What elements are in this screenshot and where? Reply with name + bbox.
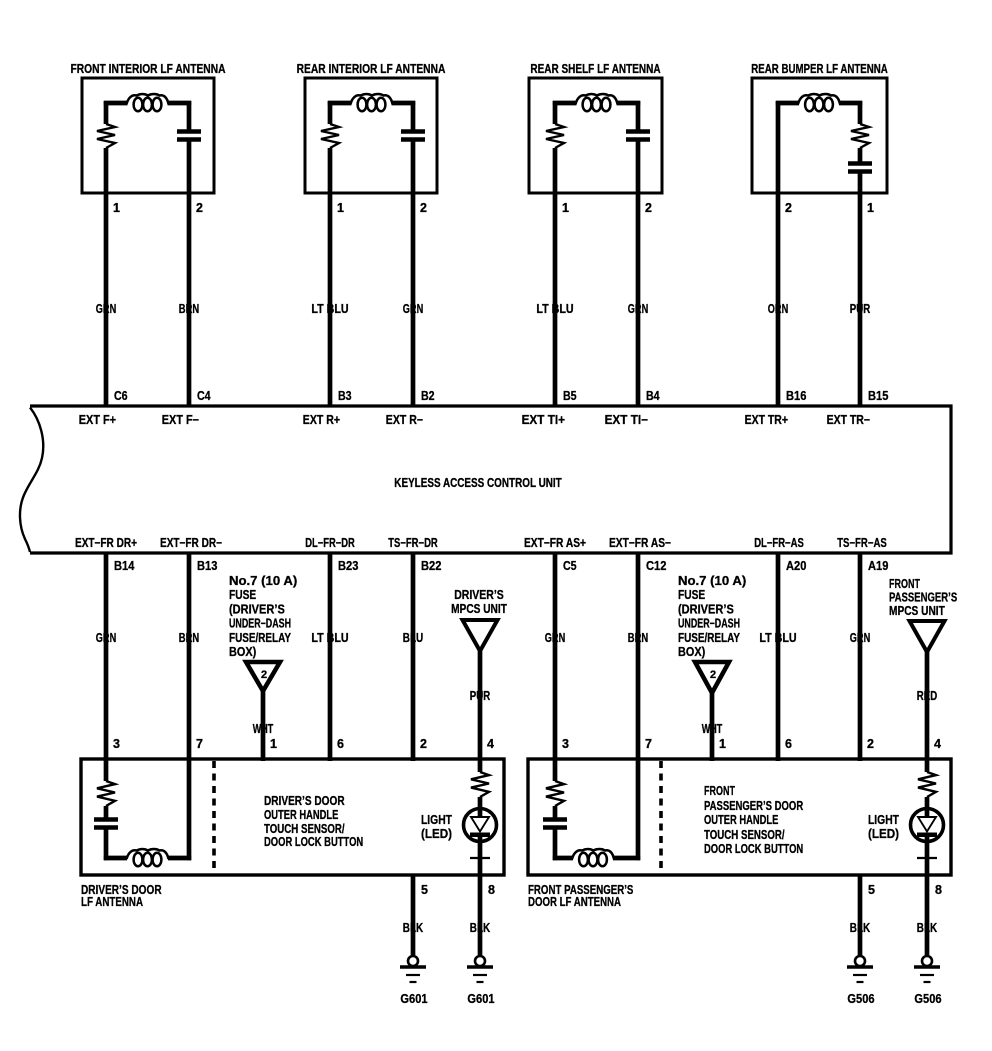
connector pin B4 bbox=[646, 389, 660, 403]
terminal label EXT−FR DR+ bbox=[75, 536, 137, 550]
svg-text:EXT TI−: EXT TI− bbox=[605, 413, 648, 427]
svg-text:EXT F−: EXT F− bbox=[162, 413, 199, 427]
inductor, front passenger's door LF antenna bbox=[572, 849, 614, 866]
wire: C12/BRN bbox=[636, 553, 641, 761]
svg-text:G601: G601 bbox=[467, 992, 494, 1006]
wire: pin 1 upper segment, rear interior LF antenna bbox=[328, 101, 333, 124]
ground label G601 bbox=[467, 992, 494, 1006]
wire colour label GRN bbox=[850, 631, 870, 645]
svg-text:ORN: ORN bbox=[768, 302, 788, 316]
svg-text:G601: G601 bbox=[400, 992, 427, 1006]
ground symbol G506 bbox=[914, 956, 940, 982]
label: REAR BUMPER LF ANTENNA bbox=[751, 62, 887, 76]
svg-text:FUSE: FUSE bbox=[678, 588, 705, 602]
ground symbol G601 bbox=[400, 956, 426, 982]
wire: pin 5 BLK to ground, driver side bbox=[411, 875, 416, 956]
wire: pin 2 upper segment, rear interior LF antenna bbox=[411, 101, 416, 131]
wire: bottom rail left, driver's door antenna bbox=[104, 856, 127, 861]
svg-text:B2: B2 bbox=[421, 389, 435, 403]
svg-text:WHT: WHT bbox=[253, 722, 274, 736]
pin number 5, driver side bbox=[421, 883, 428, 897]
wire: pin 8 BLK to ground, passenger side bbox=[925, 875, 930, 956]
svg-text:REAR BUMPER LF ANTENNA: REAR BUMPER LF ANTENNA bbox=[751, 62, 887, 76]
wire: resistor to capacitor, rear bumper LF antenna bbox=[858, 148, 863, 163]
resistor, front passenger's door LF antenna bbox=[546, 781, 564, 806]
wire colour label LT BLU bbox=[759, 631, 796, 645]
wire: top rail right, front interior LF antenna bbox=[168, 101, 192, 106]
antenna unit box: rear shelf LF antenna bbox=[529, 78, 662, 193]
wire: LED cathode to box bottom, driver bbox=[478, 834, 483, 875]
wire colour label GRN bbox=[96, 631, 116, 645]
capacitor, rear shelf LF antenna bbox=[626, 132, 650, 140]
connector pin C4 bbox=[197, 389, 211, 403]
terminal label EXT R− bbox=[386, 413, 423, 427]
svg-text:5: 5 bbox=[868, 883, 875, 897]
wire: pin 2 lead to control unit, front interior LF antenna bbox=[187, 141, 192, 406]
svg-text:B16: B16 bbox=[786, 389, 806, 403]
svg-text:B3: B3 bbox=[338, 389, 352, 403]
terminal label EXT TR+ bbox=[745, 413, 788, 427]
svg-text:GRN: GRN bbox=[850, 631, 870, 645]
wire: pin 2 lead to control unit, rear interior LF antenna bbox=[411, 141, 416, 406]
svg-text:6: 6 bbox=[785, 737, 792, 751]
svg-text:UNDER−DASH: UNDER−DASH bbox=[678, 617, 740, 631]
svg-text:FUSE: FUSE bbox=[229, 588, 256, 602]
svg-text:EXT−FR AS−: EXT−FR AS− bbox=[609, 536, 671, 550]
pin number 5, passenger side bbox=[868, 883, 875, 897]
svg-text:TS−FR−DR: TS−FR−DR bbox=[388, 536, 438, 550]
svg-text:5: 5 bbox=[421, 883, 428, 897]
pin number 2, rear shelf LF antenna bbox=[645, 201, 652, 215]
wire: top rail right, rear shelf LF antenna bbox=[617, 101, 641, 106]
svg-text:PASSENGER’S: PASSENGER’S bbox=[889, 591, 957, 605]
wire: MPCS unit to driver door unit pin 4 (PUR) bbox=[478, 651, 483, 761]
wire: B23/LT BLU bbox=[328, 553, 333, 761]
pin number 7 bbox=[645, 737, 652, 751]
svg-text:PUR: PUR bbox=[470, 689, 490, 703]
svg-text:C12: C12 bbox=[646, 559, 666, 573]
capacitor, driver's door LF antenna bbox=[94, 820, 118, 828]
svg-text:EXT−FR AS+: EXT−FR AS+ bbox=[524, 536, 586, 550]
box: front passenger's door unit outer handle touch sensor/door lock button bbox=[528, 759, 951, 875]
svg-text:DOOR LOCK BUTTON: DOOR LOCK BUTTON bbox=[704, 842, 803, 856]
wire: resistor to capacitor, passenger door antenna bbox=[553, 806, 558, 819]
wire: pin 2 upper segment, rear shelf LF antenna bbox=[636, 101, 641, 131]
wire colour label PUR bbox=[850, 302, 870, 316]
svg-text:C6: C6 bbox=[114, 389, 128, 403]
svg-text:DRIVER’S DOOR: DRIVER’S DOOR bbox=[264, 794, 345, 808]
label: DRIVER'S DOOR OUTER HANDLE TOUCH SENSOR/DOOR LOCK BUTTON bbox=[264, 794, 363, 849]
antenna unit box: front interior LF antenna bbox=[82, 78, 214, 193]
inductor, rear shelf LF antenna bbox=[576, 94, 618, 111]
wire colour label BRN bbox=[179, 302, 199, 316]
box: driver's door unit outer handle touch sensor/door lock button bbox=[81, 759, 504, 875]
svg-text:TS−FR−AS: TS−FR−AS bbox=[837, 536, 887, 550]
svg-text:EXT R+: EXT R+ bbox=[303, 413, 340, 427]
svg-text:OUTER HANDLE: OUTER HANDLE bbox=[264, 808, 338, 822]
wire: resistor to LED, passenger bbox=[925, 797, 930, 817]
tick mark on LED cathode wire, driver bbox=[470, 857, 490, 859]
svg-text:EXT TR−: EXT TR− bbox=[827, 413, 870, 427]
svg-text:1: 1 bbox=[270, 737, 277, 751]
connector pin B14 bbox=[114, 559, 134, 573]
wire: pin 4 to resistor, passenger LED bbox=[925, 761, 930, 772]
capacitor, rear interior LF antenna bbox=[401, 132, 425, 140]
svg-text:FUSE/RELAY: FUSE/RELAY bbox=[678, 631, 741, 645]
pin number 8, driver side bbox=[488, 883, 495, 897]
svg-text:2: 2 bbox=[645, 201, 652, 215]
svg-text:EXT F+: EXT F+ bbox=[79, 413, 116, 427]
wire: top rail left, rear interior LF antenna bbox=[328, 101, 352, 106]
label: LIGHT (LED), driver bbox=[421, 813, 452, 841]
wire: top rail right, rear bumper LF antenna bbox=[839, 101, 862, 106]
connector pin C5 bbox=[563, 559, 577, 573]
pin number 1, rear bumper LF antenna bbox=[867, 201, 874, 215]
svg-text:7: 7 bbox=[645, 737, 652, 751]
connector pin B2 bbox=[421, 389, 435, 403]
dashed divider, front passenger's door unit bbox=[659, 761, 663, 873]
svg-text:EXT−FR DR+: EXT−FR DR+ bbox=[75, 536, 137, 550]
wire: driver's door antenna pin 3 segment bbox=[104, 761, 109, 781]
svg-text:LT BLU: LT BLU bbox=[311, 302, 348, 316]
wire colour label BRN bbox=[628, 631, 648, 645]
svg-text:No.7 (10 A): No.7 (10 A) bbox=[678, 574, 746, 588]
svg-text:LIGHT: LIGHT bbox=[421, 813, 452, 827]
resistor, passenger LED branch bbox=[918, 772, 936, 797]
svg-text:B23: B23 bbox=[338, 559, 358, 573]
resistor, driver's door LF antenna bbox=[97, 781, 115, 806]
connector pin C6 bbox=[114, 389, 128, 403]
capacitor, front interior LF antenna bbox=[177, 132, 201, 140]
svg-text:PUR: PUR bbox=[850, 302, 870, 316]
svg-text:GRN: GRN bbox=[628, 302, 648, 316]
svg-text:4: 4 bbox=[487, 737, 494, 751]
svg-text:LF ANTENNA: LF ANTENNA bbox=[81, 895, 143, 909]
wire: A19/GRN bbox=[858, 553, 863, 761]
label: DRIVER'S MPCS UNIT bbox=[451, 588, 507, 616]
svg-text:B4: B4 bbox=[646, 389, 660, 403]
wire: capacitor down, passenger door antenna bbox=[553, 829, 558, 860]
svg-text:GRN: GRN bbox=[96, 302, 116, 316]
wire: bottom rail right, driver's door antenna bbox=[168, 856, 191, 861]
wire: B22/BLU bbox=[411, 553, 416, 761]
svg-text:FRONT INTERIOR LF ANTENNA: FRONT INTERIOR LF ANTENNA bbox=[71, 62, 226, 76]
wire: bottom rail left, passenger door antenna bbox=[553, 856, 573, 861]
svg-text:DRIVER’S: DRIVER’S bbox=[454, 588, 504, 602]
resistor, rear interior LF antenna bbox=[321, 124, 339, 148]
wire: passenger door antenna pin 3 segment bbox=[553, 761, 558, 781]
svg-text:(DRIVER’S: (DRIVER’S bbox=[678, 602, 734, 616]
wire: C5/GRN bbox=[553, 553, 558, 761]
connector pin C12 bbox=[646, 559, 666, 573]
antenna unit box: rear interior LF antenna bbox=[305, 78, 437, 193]
svg-text:MPCS UNIT: MPCS UNIT bbox=[889, 604, 945, 618]
svg-text:DL−FR−DR: DL−FR−DR bbox=[305, 536, 355, 550]
svg-text:1: 1 bbox=[867, 201, 874, 215]
resistor, rear bumper LF antenna bbox=[851, 124, 869, 148]
resistor, rear shelf LF antenna bbox=[546, 124, 564, 148]
svg-text:LT BLU: LT BLU bbox=[759, 631, 796, 645]
svg-text:6: 6 bbox=[337, 737, 344, 751]
terminal label EXT F− bbox=[162, 413, 199, 427]
wire: B13/BRN bbox=[187, 553, 192, 761]
label: REAR SHELF LF ANTENNA bbox=[530, 62, 660, 76]
wire colour label ORN bbox=[768, 302, 788, 316]
terminal label TS−FR−DR bbox=[388, 536, 438, 550]
svg-text:A20: A20 bbox=[786, 559, 806, 573]
svg-text:TOUCH SENSOR/: TOUCH SENSOR/ bbox=[264, 822, 345, 836]
svg-text:BOX): BOX) bbox=[229, 645, 256, 659]
label: No.7 (10 A) fuse callout (left) bbox=[229, 574, 297, 659]
wire colour label GRN bbox=[96, 302, 116, 316]
svg-text:BLK: BLK bbox=[917, 921, 937, 935]
front passenger's MPCS unit symbol bbox=[910, 621, 945, 652]
fuse No.7 symbol (driver side) bbox=[246, 662, 280, 691]
svg-text:7: 7 bbox=[196, 737, 203, 751]
svg-text:B13: B13 bbox=[197, 559, 217, 573]
svg-text:TOUCH SENSOR/: TOUCH SENSOR/ bbox=[704, 828, 785, 842]
svg-text:WHT: WHT bbox=[702, 722, 723, 736]
wire: top rail right, rear interior LF antenna bbox=[392, 101, 416, 106]
inductor, driver's door LF antenna bbox=[127, 849, 169, 866]
connector pin B3 bbox=[338, 389, 352, 403]
wire colour label BLK bbox=[470, 921, 490, 935]
svg-text:FUSE/RELAY: FUSE/RELAY bbox=[229, 631, 292, 645]
svg-text:2: 2 bbox=[785, 201, 792, 215]
connector pin A19 bbox=[868, 559, 888, 573]
svg-text:8: 8 bbox=[935, 883, 942, 897]
svg-text:G506: G506 bbox=[847, 992, 874, 1006]
driver's MPCS unit symbol bbox=[463, 620, 498, 651]
svg-text:GRN: GRN bbox=[545, 631, 565, 645]
wire: resistor to LED, driver bbox=[478, 797, 483, 817]
label: DRIVER'S DOOR LF ANTENNA bbox=[81, 883, 162, 909]
wire colour label WHT bbox=[253, 722, 274, 736]
svg-text:EXT TR+: EXT TR+ bbox=[745, 413, 788, 427]
pin number 2, rear bumper LF antenna bbox=[785, 201, 792, 215]
terminal label DL−FR−DR bbox=[305, 536, 355, 550]
pin number 6 bbox=[785, 737, 792, 751]
svg-text:1: 1 bbox=[113, 201, 120, 215]
label: LIGHT (LED), passenger bbox=[868, 813, 899, 841]
wire colour label GRN bbox=[403, 302, 423, 316]
terminal label EXT−FR AS+ bbox=[524, 536, 586, 550]
svg-text:DOOR LOCK BUTTON: DOOR LOCK BUTTON bbox=[264, 835, 363, 849]
wire colour label LT BLU bbox=[536, 302, 573, 316]
svg-text:GRN: GRN bbox=[96, 631, 116, 645]
svg-text:EXT R−: EXT R− bbox=[386, 413, 423, 427]
wire: pin 1 lead to control unit, rear bumper LF antenna bbox=[858, 173, 863, 406]
svg-text:MPCS UNIT: MPCS UNIT bbox=[451, 602, 507, 616]
svg-text:BLK: BLK bbox=[403, 921, 423, 935]
svg-text:1: 1 bbox=[719, 737, 726, 751]
wire colour label LT BLU bbox=[311, 302, 348, 316]
terminal label EXT TI− bbox=[605, 413, 648, 427]
tick mark on LED cathode wire, passenger bbox=[917, 857, 937, 859]
wire: passenger door antenna pin 7 segment bbox=[636, 761, 641, 860]
ground label G601 bbox=[400, 992, 427, 1006]
pin number 8, passenger side bbox=[935, 883, 942, 897]
wire: pin 1 upper segment, front interior LF antenna bbox=[104, 101, 109, 124]
svg-text:8: 8 bbox=[488, 883, 495, 897]
connector pin B22 bbox=[421, 559, 441, 573]
svg-text:2: 2 bbox=[867, 737, 874, 751]
pin number 4 bbox=[934, 737, 941, 751]
svg-text:No.7 (10 A): No.7 (10 A) bbox=[229, 574, 297, 588]
wire colour label BLK bbox=[403, 921, 423, 935]
pin number 2, rear interior LF antenna bbox=[420, 201, 427, 215]
wire: pin 2 lead to control unit, rear bumper LF antenna bbox=[776, 101, 781, 406]
svg-text:B15: B15 bbox=[868, 389, 888, 403]
svg-text:2: 2 bbox=[261, 669, 267, 681]
inductor, rear bumper LF antenna bbox=[798, 94, 840, 111]
label: FRONT PASSENGER'S MPCS UNIT bbox=[889, 577, 957, 618]
svg-text:4: 4 bbox=[934, 737, 941, 751]
pin number 3 bbox=[562, 737, 569, 751]
svg-text:EXT TI+: EXT TI+ bbox=[522, 413, 565, 427]
wire: MPCS unit to passenger door unit pin 4 (RED) bbox=[925, 652, 930, 761]
svg-text:EXT−FR DR−: EXT−FR DR− bbox=[160, 536, 222, 550]
connector pin B13 bbox=[197, 559, 217, 573]
wire: fuse to driver door unit pin 1 (WHT) bbox=[261, 691, 266, 761]
inductor, front interior LF antenna bbox=[127, 94, 169, 111]
wire: pin 5 BLK to ground, passenger side bbox=[858, 875, 863, 956]
wire: fuse to passenger door unit pin 1 (WHT) bbox=[710, 693, 715, 761]
pin number 1, front interior LF antenna bbox=[113, 201, 120, 215]
connector pin A20 bbox=[786, 559, 806, 573]
resistor, front interior LF antenna bbox=[97, 124, 115, 148]
svg-text:3: 3 bbox=[113, 737, 120, 751]
wire: bottom rail right, passenger door antenna bbox=[613, 856, 640, 861]
wire: pin 1 lead to control unit, rear shelf LF antenna bbox=[553, 148, 558, 406]
wire colour label RED bbox=[917, 689, 937, 703]
connector pin B16 bbox=[786, 389, 806, 403]
terminal label EXT TR− bbox=[827, 413, 870, 427]
wire: pin 1 upper segment, rear shelf LF antenna bbox=[553, 101, 558, 124]
inductor, rear interior LF antenna bbox=[351, 94, 393, 111]
svg-text:GRN: GRN bbox=[403, 302, 423, 316]
svg-text:C4: C4 bbox=[197, 389, 211, 403]
svg-text:3: 3 bbox=[562, 737, 569, 751]
wire: top rail left, rear bumper LF antenna bbox=[776, 101, 799, 106]
wire colour label GRN bbox=[628, 302, 648, 316]
wire: top rail left, front interior LF antenna bbox=[104, 101, 128, 106]
wire: pin 1 upper segment, rear bumper LF antenna bbox=[858, 101, 863, 124]
svg-text:2: 2 bbox=[196, 201, 203, 215]
wire: capacitor down, driver's door antenna bbox=[104, 829, 109, 860]
wire colour label GRN bbox=[545, 631, 565, 645]
wire colour label BLK bbox=[917, 921, 937, 935]
svg-text:LT BLU: LT BLU bbox=[536, 302, 573, 316]
wire colour label PUR bbox=[470, 689, 490, 703]
wire: driver's door antenna pin 7 segment bbox=[187, 761, 192, 860]
svg-text:LIGHT: LIGHT bbox=[868, 813, 899, 827]
svg-text:FRONT: FRONT bbox=[889, 577, 920, 591]
svg-text:B14: B14 bbox=[114, 559, 134, 573]
svg-text:(DRIVER’S: (DRIVER’S bbox=[229, 602, 285, 616]
connector pin B5 bbox=[563, 389, 577, 403]
label: No.7 (10 A) fuse callout (right) bbox=[678, 574, 746, 659]
ground label G506 bbox=[914, 992, 941, 1006]
svg-text:C5: C5 bbox=[563, 559, 577, 573]
svg-text:BRN: BRN bbox=[179, 631, 199, 645]
wire colour label LT BLU bbox=[311, 631, 348, 645]
antenna unit box: rear bumper LF antenna bbox=[752, 78, 887, 193]
terminal label TS−FR−AS bbox=[837, 536, 887, 550]
wire: pin 2 lead to control unit, rear shelf LF antenna bbox=[636, 141, 641, 406]
svg-text:1: 1 bbox=[562, 201, 569, 215]
pin number 1 bbox=[719, 737, 726, 751]
wire colour label WHT bbox=[702, 722, 723, 736]
svg-text:A19: A19 bbox=[868, 559, 888, 573]
ground symbol G601 bbox=[467, 956, 493, 982]
wire: pin 8 BLK to ground, driver side bbox=[478, 875, 483, 956]
capacitor, front passenger's door LF antenna bbox=[543, 820, 567, 828]
svg-text:2: 2 bbox=[420, 201, 427, 215]
resistor, driver LED branch bbox=[471, 772, 489, 797]
svg-text:DOOR LF ANTENNA: DOOR LF ANTENNA bbox=[528, 895, 621, 909]
svg-text:1: 1 bbox=[337, 201, 344, 215]
wire colour label BRN bbox=[179, 631, 199, 645]
svg-text:RED: RED bbox=[917, 689, 937, 703]
terminal label EXT R+ bbox=[303, 413, 340, 427]
svg-text:PASSENGER’S DOOR: PASSENGER’S DOOR bbox=[704, 799, 803, 813]
connector pin B23 bbox=[338, 559, 358, 573]
svg-text:BLK: BLK bbox=[470, 921, 490, 935]
pin number 2 bbox=[867, 737, 874, 751]
wire: pin 4 to resistor, driver LED bbox=[478, 761, 483, 772]
pin number 2, front interior LF antenna bbox=[196, 201, 203, 215]
svg-text:DL−FR−AS: DL−FR−AS bbox=[754, 536, 804, 550]
label: FRONT PASSENGER'S DOOR OUTER HANDLE TOUCH SENSOR/DOOR LOCK BUTTON bbox=[704, 784, 803, 856]
svg-text:OUTER HANDLE: OUTER HANDLE bbox=[704, 813, 778, 827]
pin number 1, rear shelf LF antenna bbox=[562, 201, 569, 215]
wire: B14/GRN bbox=[104, 553, 109, 761]
capacitor, rear bumper LF antenna bbox=[848, 164, 872, 172]
fuse No.7 symbol (passenger side) bbox=[695, 662, 729, 693]
wire: pin 1 lead to control unit, rear interior LF antenna bbox=[328, 148, 333, 406]
wire: A20/LT BLU bbox=[776, 553, 781, 761]
LED, driver door light bbox=[464, 809, 497, 842]
svg-text:BOX): BOX) bbox=[678, 645, 705, 659]
dashed divider, driver's door unit bbox=[212, 761, 216, 873]
label: KEYLESS ACCESS CONTROL UNIT bbox=[394, 476, 562, 490]
pin number 7 bbox=[196, 737, 203, 751]
svg-text:(LED): (LED) bbox=[421, 827, 452, 841]
pin number 3 bbox=[113, 737, 120, 751]
svg-text:UNDER−DASH: UNDER−DASH bbox=[229, 617, 291, 631]
connector pin B15 bbox=[868, 389, 888, 403]
wire: pin 1 lead to control unit, front interior LF antenna bbox=[104, 148, 109, 406]
wire colour label BLU bbox=[403, 631, 423, 645]
terminal label EXT−FR AS− bbox=[609, 536, 671, 550]
wire colour label BLK bbox=[850, 921, 870, 935]
terminal label EXT−FR DR− bbox=[160, 536, 222, 550]
svg-text:BLU: BLU bbox=[403, 631, 423, 645]
label: FRONT PASSENGER'S DOOR LF ANTENNA bbox=[528, 883, 633, 909]
wire: top rail left, rear shelf LF antenna bbox=[553, 101, 577, 106]
pin number 4 bbox=[487, 737, 494, 751]
svg-text:KEYLESS ACCESS CONTROL UNIT: KEYLESS ACCESS CONTROL UNIT bbox=[394, 476, 562, 490]
pin number 2 bbox=[420, 737, 427, 751]
svg-text:REAR INTERIOR LF ANTENNA: REAR INTERIOR LF ANTENNA bbox=[297, 62, 446, 76]
svg-text:BRN: BRN bbox=[179, 302, 199, 316]
terminal label EXT TI+ bbox=[522, 413, 565, 427]
label: REAR INTERIOR LF ANTENNA bbox=[297, 62, 446, 76]
pin number 1 bbox=[270, 737, 277, 751]
pin number 6 bbox=[337, 737, 344, 751]
svg-text:B22: B22 bbox=[421, 559, 441, 573]
